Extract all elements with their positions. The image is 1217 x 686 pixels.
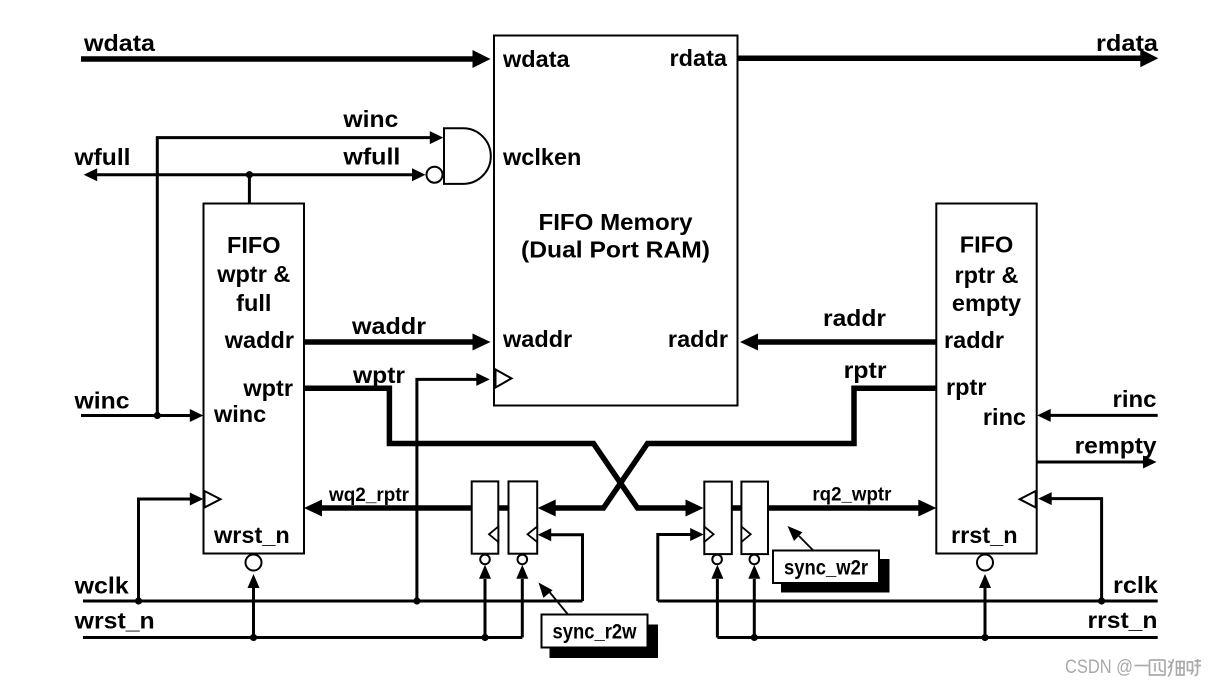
reset bubble of U2: [246, 555, 262, 571]
svg-text:wclk: wclk: [74, 573, 130, 599]
junction rclk at U3 branch: [1098, 597, 1105, 604]
svg-text:rinc: rinc: [983, 404, 1026, 430]
clock triangle of FF1 sync_w2r: [704, 527, 713, 543]
svg-text:wdata: wdata: [83, 30, 156, 56]
junction rrst_n at U3: [981, 634, 988, 641]
callout box sync_w2r: [773, 551, 879, 584]
reset bubble of FF2 sync_w2r: [750, 555, 760, 565]
wire wrst_n to sync_r2w FF2 reset: [521, 579, 524, 638]
svg-text:rrst_n: rrst_n: [951, 522, 1018, 548]
svg-text:CSDN @: CSDN @: [1065, 657, 1133, 678]
wire wfull output: [97, 173, 412, 176]
svg-text:rclk: rclk: [1113, 572, 1159, 598]
svg-text:FIFO: FIFO: [227, 232, 281, 258]
junction wrst_n at U2: [250, 634, 257, 641]
callout box sync_r2w (shadow): [550, 625, 659, 659]
flip-flop FF2 of sync_r2w: [509, 481, 538, 553]
clock input triangle of U1: [496, 370, 512, 388]
wire between sync_r2w flip-flops (thick): [498, 505, 508, 511]
junction wfull branch: [246, 171, 253, 178]
svg-text:wrst_n: wrst_n: [213, 522, 290, 548]
inverter bubble on G1 input: [427, 167, 443, 183]
clock triangle of FF1 sync_r2w: [489, 527, 498, 543]
junction winc: [154, 412, 161, 419]
watermark CSDN @一匹狼呀: [1065, 657, 1201, 678]
wire rrst_n to sync_w2r FF2 reset: [753, 579, 756, 638]
wire rptr from U3 through crossover to sync_r2w (thick): [555, 388, 937, 508]
svg-text:wptr: wptr: [242, 375, 293, 401]
svg-text:wfull: wfull: [73, 144, 130, 170]
svg-text:waddr: waddr: [502, 326, 572, 352]
svg-text:rdata: rdata: [1096, 30, 1159, 56]
block U3 FIFO rptr & empty: [936, 204, 1036, 554]
reset bubble of FF2 sync_r2w: [518, 555, 528, 565]
wire wclk rail: [83, 600, 583, 603]
svg-text:rempty: rempty: [1075, 433, 1157, 459]
wire wrst_n to sync_r2w FF1 reset: [484, 579, 487, 638]
svg-text:full: full: [236, 290, 271, 316]
wire rrst_n rail: [717, 636, 1157, 639]
callout arrow sync_r2w: [550, 592, 569, 615]
wire wq2_rptr to U2 (thick): [321, 505, 472, 511]
wire winc to and-gate: [157, 138, 430, 416]
svg-text:rptr &: rptr &: [955, 262, 1019, 288]
reset bubble of FF1 sync_r2w: [480, 555, 490, 565]
svg-text:rq2_wptr: rq2_wptr: [812, 484, 891, 506]
wire rempty output: [1037, 461, 1144, 464]
clock triangle of FF2 sync_r2w: [528, 527, 538, 543]
svg-text:rptr: rptr: [946, 374, 986, 400]
svg-text:(Dual Port RAM): (Dual Port RAM): [521, 237, 710, 263]
wire waddr (thick): [304, 339, 474, 345]
svg-text:winc: winc: [213, 401, 266, 427]
svg-text:sync_w2r: sync_w2r: [784, 557, 868, 580]
wire rinc input: [1050, 414, 1158, 417]
wire rclk rail: [658, 600, 1158, 603]
wire rrst_n to sync_w2r FF1 reset: [716, 579, 719, 638]
block U1 FIFO Memory (Dual Port RAM): [494, 36, 738, 406]
clock input triangle of U3: [1020, 491, 1036, 508]
reset bubble of U3: [977, 555, 993, 571]
svg-text:wrst_n: wrst_n: [74, 608, 155, 634]
callout box sync_r2w: [542, 615, 648, 648]
svg-text:raddr: raddr: [823, 305, 886, 331]
svg-text:raddr: raddr: [668, 326, 728, 352]
callout box sync_w2r (shadow): [781, 559, 890, 593]
wire wrst_n to U2 reset: [252, 588, 255, 638]
clock triangle of FF2 sync_w2r: [741, 527, 750, 543]
wire rclk to U3 clock: [1051, 499, 1102, 601]
wire wclk to U2 clock: [139, 499, 191, 601]
svg-text:wclken: wclken: [502, 144, 581, 170]
reset bubble of FF1 sync_w2r: [712, 555, 722, 565]
wire winc input: [81, 414, 191, 417]
flip-flop FF1 of sync_w2r: [704, 482, 732, 554]
svg-text:rdata: rdata: [670, 45, 728, 71]
svg-text:rptr: rptr: [844, 357, 887, 383]
wire rclk to sync_w2r clock: [658, 535, 691, 602]
wire raddr (thick): [757, 339, 936, 345]
wire rq2_wptr to U3 (thick): [768, 505, 920, 511]
svg-text:winc: winc: [73, 388, 129, 414]
svg-text:wdata: wdata: [502, 46, 571, 72]
junction wclk at U2 branch: [135, 597, 142, 604]
flip-flop FF1 of sync_r2w: [472, 481, 499, 553]
svg-text:sync_r2w: sync_r2w: [553, 621, 638, 644]
svg-text:raddr: raddr: [944, 327, 1004, 353]
wire wdata (thick): [81, 56, 474, 62]
svg-text:wptr &: wptr &: [216, 261, 290, 287]
wire rdata (thick): [738, 55, 1142, 61]
block U2 FIFO wptr & full: [204, 204, 305, 554]
svg-text:wfull: wfull: [342, 144, 400, 170]
wire wclk to U1 clock: [417, 379, 477, 601]
svg-text:FIFO Memory: FIFO Memory: [539, 209, 693, 235]
svg-text:rinc: rinc: [1113, 386, 1157, 412]
wire wfull branch into U2 top: [248, 175, 251, 203]
svg-text:waddr: waddr: [351, 313, 426, 339]
junction rrst_n at FF2: [751, 634, 758, 641]
junction wclk at U1 branch: [413, 597, 420, 604]
svg-text:winc: winc: [342, 106, 398, 132]
wire rrst_n to U3 reset: [984, 588, 987, 638]
wire wclk to sync_r2w clock: [551, 535, 583, 601]
svg-text:rrst_n: rrst_n: [1088, 607, 1158, 633]
svg-text:FIFO: FIFO: [960, 232, 1014, 258]
svg-text:wq2_rptr: wq2_rptr: [328, 484, 409, 506]
wire between sync_w2r flip-flops (thick): [732, 505, 742, 511]
svg-text:wptr: wptr: [352, 362, 405, 388]
and-gate G1 wclken: [444, 128, 491, 184]
flip-flop FF2 of sync_w2r: [741, 482, 768, 554]
wire wptr from U2 through crossover to sync_w2r (thick): [304, 388, 687, 508]
callout arrow sync_w2r: [799, 536, 813, 551]
svg-text:waddr: waddr: [224, 327, 294, 353]
svg-text:empty: empty: [952, 290, 1021, 316]
wire wrst_n rail: [83, 636, 522, 639]
junction wrst_n at FF1: [481, 634, 488, 641]
clock input triangle of U2: [205, 491, 221, 508]
